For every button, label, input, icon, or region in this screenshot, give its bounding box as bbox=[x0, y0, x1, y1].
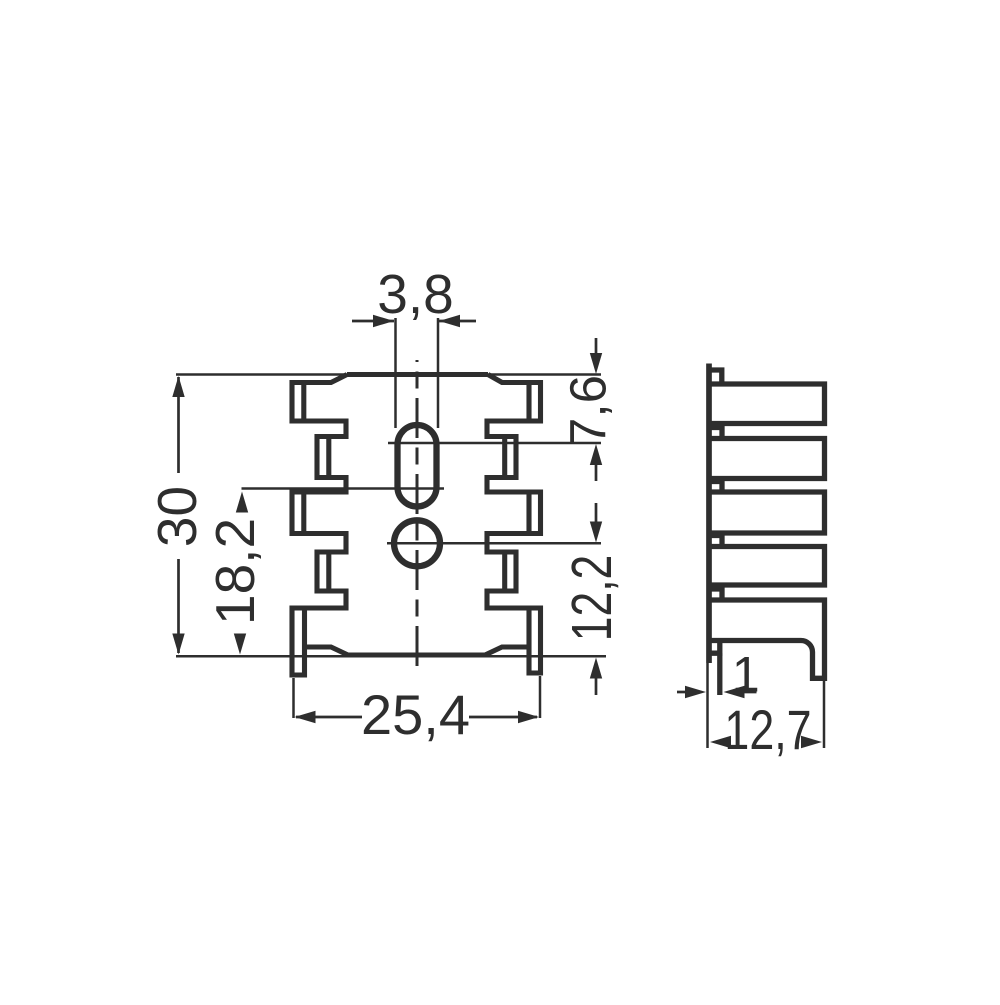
1 right arrow bbox=[724, 686, 745, 698]
dimension 12,2 arrow shafts bbox=[595, 503, 598, 523]
7,6 top arrow bbox=[590, 353, 602, 374]
3,8 right arrow bbox=[439, 315, 460, 327]
round hole bbox=[394, 520, 440, 566]
tab 3 bbox=[707, 482, 723, 493]
dimension 25,4 extension lines bbox=[292, 678, 295, 718]
svg-text:7,6: 7,6 bbox=[560, 375, 617, 446]
fin 4 bbox=[709, 547, 825, 586]
25,4 right arrow bbox=[518, 711, 539, 723]
18,2 bottom arrow bbox=[234, 634, 246, 655]
bottom body section bbox=[709, 600, 825, 678]
svg-text:3,8: 3,8 bbox=[377, 263, 453, 325]
spine bbox=[706, 364, 712, 664]
left castellated outline bbox=[292, 375, 347, 676]
tab 1 bbox=[707, 370, 722, 384]
tab 2 bbox=[707, 428, 723, 439]
dimension 7,6 arrow shafts bbox=[595, 338, 598, 355]
fin 2 bbox=[709, 439, 825, 479]
12,2 top arrow bbox=[590, 522, 602, 543]
fin 1 bbox=[709, 384, 825, 424]
12,2 bottom arrow bbox=[590, 658, 602, 679]
1 left arrow bbox=[685, 686, 706, 698]
svg-text:12,2: 12,2 bbox=[560, 555, 624, 642]
extension line right (12,7) bbox=[823, 677, 826, 748]
dimension 3,8 extension lines bbox=[394, 318, 397, 428]
svg-text:18,2: 18,2 bbox=[204, 518, 266, 625]
extension line left (for 1 and 12,7) bbox=[706, 663, 709, 748]
25,4 left arrow bbox=[295, 711, 316, 723]
dimension 30 line bbox=[177, 377, 180, 473]
side foot bar bbox=[717, 653, 722, 695]
svg-text:12,7: 12,7 bbox=[724, 698, 811, 761]
centre mark / extension line slot bottom arc centre (18,2) bbox=[242, 487, 445, 490]
centre mark / extension line through slot top arc centre (7,6) bbox=[388, 442, 601, 445]
top edge extension line (thin, full width) bbox=[176, 373, 601, 376]
tooth inner thickness lines left bbox=[301, 385, 306, 419]
3,8 left arrow bbox=[373, 315, 394, 327]
top edge (thick) bbox=[347, 372, 488, 377]
12,7 right arrow bbox=[801, 736, 822, 748]
fin 3 bbox=[709, 492, 825, 533]
18,2 top arrow bbox=[236, 492, 248, 513]
bottom edge extension line (thin, full width) bbox=[176, 655, 606, 658]
right castellated outline bbox=[487, 375, 541, 674]
oblong slot hole bbox=[398, 425, 437, 507]
dimension 25,4 lines bbox=[296, 716, 362, 719]
centre mark / extension line circle centre (12,2) bbox=[387, 542, 601, 545]
7,6 bottom arrow bbox=[590, 444, 602, 465]
tab 5 bbox=[707, 589, 723, 600]
svg-text:1: 1 bbox=[732, 647, 760, 703]
12,7 left arrow bbox=[710, 736, 731, 748]
bottom edge with shoulders (thick) bbox=[305, 647, 530, 655]
30 top arrow bbox=[172, 376, 184, 397]
svg-text:30: 30 bbox=[146, 486, 208, 547]
tab 6 bbox=[709, 641, 720, 654]
dimension 1 arrow shafts bbox=[677, 691, 685, 694]
vertical centre line (dash-dot) bbox=[416, 360, 419, 672]
dimension 3,8 lines bbox=[352, 320, 394, 323]
tooth inner thickness lines right bbox=[526, 385, 531, 419]
tab 4 bbox=[707, 536, 723, 547]
30 bottom arrow bbox=[172, 634, 184, 655]
svg-text:25,4: 25,4 bbox=[361, 683, 470, 746]
